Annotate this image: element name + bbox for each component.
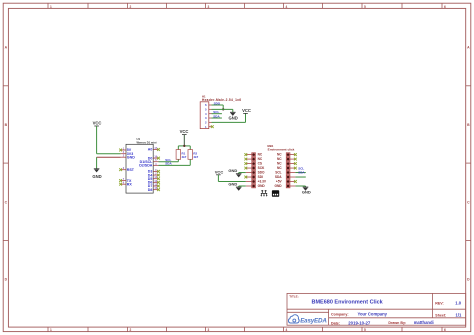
svg-text:Company:: Company: (331, 313, 349, 317)
MB1 pin SCK (left col) (244, 166, 265, 170)
MB1 pin SCL (right col) (275, 171, 295, 175)
wire MB1 GND (right) to ground (295, 186, 305, 187)
svg-text:BME680 Environment Click: BME680 Environment Click (312, 299, 384, 305)
svg-text:Environment click: Environment click (268, 147, 295, 151)
U1 pin GND (left) (121, 155, 136, 160)
svg-text:GND: GND (258, 184, 266, 188)
svg-text:3: 3 (208, 5, 210, 9)
U1 pin D3 (right) (148, 169, 160, 174)
ground (below U1 left) (92, 169, 101, 179)
svg-text:VCC: VCC (93, 121, 102, 126)
svg-text:TITLE:: TITLE: (289, 295, 298, 299)
MB1 pin NC (right col) (277, 153, 297, 157)
svg-text:matthandi: matthandi (414, 320, 434, 325)
svg-text:GND: GND (302, 190, 311, 195)
MB1 pin NC (right col) (277, 157, 297, 161)
svg-text:2: 2 (130, 328, 132, 332)
svg-text:A0: A0 (148, 148, 153, 152)
wire H1 pin6 to pin5 (SDO tie) (212, 105, 224, 109)
svg-text:Your Company: Your Company (358, 312, 388, 317)
svg-text:4k7: 4k7 (193, 155, 198, 159)
svg-text:SDA: SDA (298, 170, 305, 174)
U1 pin 3V3 (left) (121, 151, 134, 156)
power symbol VCC (left, to U1 3V3) (93, 121, 102, 126)
ground (MB1 right) (302, 187, 311, 195)
MB1 pin NC (left col) (244, 157, 263, 161)
svg-text:1: 1 (50, 328, 52, 332)
H1 pin 5 (205, 107, 211, 111)
U1 pin D0 (right) (148, 156, 160, 161)
svg-text:EasyEDA: EasyEDA (300, 318, 327, 325)
MB1 pin SDA (right col) (275, 175, 296, 179)
svg-text:SDA: SDA (275, 175, 282, 179)
U1 pin 5V (left) (119, 148, 132, 153)
U1 pin D8 (right) (148, 187, 160, 192)
svg-text:5: 5 (364, 5, 366, 9)
svg-text:RX: RX (127, 182, 133, 186)
svg-text:+5V: +5V (276, 180, 283, 184)
MB1 pin SDO (left col) (246, 171, 265, 175)
junction (VCC / R1 R2) (183, 145, 185, 147)
wire H1 pin4 SCL stub (212, 113, 222, 115)
svg-text:+3.3V: +3.3V (258, 180, 267, 184)
H1 pin 4 (205, 112, 211, 116)
wire MB1 SDO to ground (239, 173, 246, 174)
U1 pin D4 (right) (148, 173, 160, 178)
svg-text:NC: NC (277, 157, 282, 161)
ground (header) (228, 112, 237, 120)
mikroBUS logo (272, 190, 279, 197)
svg-text:CS: CS (258, 162, 262, 166)
svg-text:3: 3 (208, 328, 210, 332)
H1 pin 1 (205, 125, 211, 129)
wire VCC to MB1 +3.3V (218, 175, 245, 182)
svg-text:NC: NC (258, 153, 263, 157)
H1 pin 2 (205, 120, 211, 124)
component U1 Wemos D1 mini body (126, 144, 153, 193)
U1 pin TX (left) (119, 178, 132, 183)
svg-text:SDO: SDO (258, 171, 265, 175)
MB1 pin +3.3V (left col) (246, 180, 267, 184)
wire H1 pin5 to ground (212, 109, 233, 112)
svg-text:GND: GND (228, 182, 237, 187)
ground (MB1 SDO) (228, 168, 241, 177)
wire H1 pin2 to VCC (212, 113, 246, 122)
frame zone letters (5, 46, 471, 282)
connector H1 body (200, 102, 209, 129)
MB1 pin GND (right col) (275, 184, 296, 188)
mikroBUS pinout glyph (260, 190, 267, 196)
svg-text:NC: NC (277, 166, 282, 170)
svg-text:4k7: 4k7 (182, 155, 187, 159)
wire R2 to U1 D2/SDA (159, 159, 191, 165)
resistor R2 (188, 150, 199, 160)
H1 pin 3 (205, 116, 211, 120)
wire R1 to U1 D1/SCL (159, 159, 179, 161)
svg-text:1.0: 1.0 (455, 300, 461, 305)
svg-text:NC: NC (277, 153, 282, 157)
svg-text:1/1: 1/1 (456, 312, 462, 317)
U1 pin RST (left) (119, 167, 135, 172)
svg-text:2: 2 (130, 5, 132, 9)
svg-text:1: 1 (50, 5, 52, 9)
wire MB1 GND (left) to ground (239, 186, 246, 187)
MB1 pin NC (right col) (277, 166, 297, 170)
U1 pin RX (left) (119, 182, 132, 187)
svg-text:GND: GND (127, 155, 135, 159)
wire H1 pin3 SDA stub (212, 117, 222, 119)
wire MB1 SDA stub (295, 176, 305, 178)
resistor R1 (176, 150, 187, 160)
wire MB1 SCL stub (295, 172, 305, 174)
svg-text:D8: D8 (148, 188, 153, 192)
svg-text:4: 4 (286, 5, 288, 9)
svg-text:SDI: SDI (258, 175, 263, 179)
wire VCC stem to R1 R2 (178, 135, 190, 150)
svg-text:RST: RST (127, 168, 135, 172)
U1 pin D5 (right) (148, 176, 160, 181)
U1 pin A0 (right) (148, 147, 160, 152)
svg-text:Wemos D1 mini: Wemos D1 mini (137, 141, 157, 145)
EasyEDA logo cloud (288, 315, 299, 323)
svg-text:Date:: Date: (331, 321, 340, 325)
no-connect H1 pin1 (211, 125, 214, 128)
svg-text:SCK: SCK (258, 166, 265, 170)
MB1 pin NC (left col) (244, 153, 263, 157)
power symbol VCC (above R1 R2) (180, 129, 189, 135)
U1 pin D1/SCL (right) (140, 159, 159, 164)
svg-text:GND: GND (275, 184, 283, 188)
svg-text:D2/SDA: D2/SDA (139, 164, 153, 168)
svg-text:Drawn By:: Drawn By: (388, 321, 406, 325)
svg-text:VCC: VCC (180, 129, 189, 134)
svg-text:VCC: VCC (242, 108, 251, 113)
MB1 pin NC (right col) (277, 162, 297, 166)
title block frame (287, 293, 466, 325)
junction (H1 pin5/pin6) (222, 108, 224, 110)
svg-text:GND: GND (228, 116, 237, 121)
H1 pin 6 (205, 103, 211, 107)
svg-text:6: 6 (444, 5, 446, 9)
power symbol VCC (MB1 +3.3V) (215, 170, 224, 175)
svg-text:SCL: SCL (275, 171, 281, 175)
wire U1 GND to ground (97, 157, 121, 169)
svg-text:GND: GND (228, 168, 237, 173)
svg-text:NC: NC (258, 157, 263, 161)
MB1 pin SDI (left col) (244, 175, 263, 179)
U1 pin D2/SDA (right) (139, 163, 158, 168)
svg-text:VCC: VCC (215, 170, 224, 175)
ground (MB1 left GND) (228, 182, 241, 191)
svg-text:SDA: SDA (165, 162, 172, 166)
svg-text:6: 6 (444, 328, 446, 332)
svg-text:4: 4 (286, 328, 288, 332)
svg-text:5: 5 (364, 328, 366, 332)
U1 pin D7 (right) (148, 184, 160, 189)
svg-text:Header-Male-2.54_1x6: Header-Male-2.54_1x6 (202, 98, 241, 102)
power symbol VCC (header) (242, 108, 251, 113)
svg-text:Sheet:: Sheet: (435, 313, 446, 317)
svg-text:NC: NC (277, 162, 282, 166)
wire VCC to U1 3V3 (97, 126, 121, 154)
U1 pin D6 (right) (148, 180, 160, 185)
MB1 pin GND (left col) (246, 184, 266, 188)
svg-text:GND: GND (92, 174, 101, 179)
svg-text:2019-10-27: 2019-10-27 (348, 320, 371, 325)
MB1 pin +5V (right col) (276, 180, 297, 184)
svg-text:REV:: REV: (435, 301, 443, 305)
MB1 pin CS (left col) (244, 162, 262, 166)
